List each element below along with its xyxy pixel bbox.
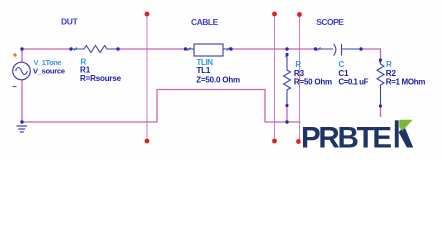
node dot R3 rail [285, 120, 288, 123]
logo K vertical bar [395, 120, 399, 147]
wire: R2 bottom to rail [380, 106, 382, 122]
wire: source bottom vertical [21, 80, 23, 123]
node dot source top [20, 47, 23, 50]
pin dot TLIN left [184, 47, 187, 50]
pin dot R1 right [116, 47, 119, 50]
node dot source bottom [20, 120, 23, 123]
marker line 3 (SCOPE boundary) [299, 14, 301, 141]
svg-text:V_source: V_source [33, 66, 65, 75]
logo white backing [301, 117, 418, 153]
pin tick C1 [318, 48, 321, 51]
pin dot C1 left [314, 47, 317, 50]
svg-text:C=0.1 uF: C=0.1 uF [338, 77, 368, 86]
resistor R1 (horizontal) [71, 46, 118, 53]
TLIN lead right [223, 48, 231, 50]
svg-text:R=Rsourse: R=Rsourse [80, 74, 122, 83]
capacitor C1 plates [316, 44, 362, 56]
red marker dot bottom 3 [296, 139, 301, 144]
pin dot R3 upper [285, 53, 288, 56]
pin tick R2 [379, 60, 382, 63]
pin dot C1 right [359, 47, 362, 50]
svg-text:CABLE: CABLE [191, 17, 219, 27]
pin tick TLIN [188, 48, 191, 51]
pin dot R3 lower [285, 104, 288, 107]
pin tick R3 [286, 55, 289, 58]
voltage source V_source circle [13, 62, 31, 80]
pin dot TLIN right [229, 47, 232, 50]
marker line 1 (DUT/CABLE boundary) [146, 14, 148, 141]
wire: TLIN to C1 (through node at R3) [231, 48, 316, 50]
red marker dot bottom 2 [272, 139, 277, 144]
svg-text:Z=50.0 Ohm: Z=50.0 Ohm [196, 75, 240, 84]
pin tick TLIN right [227, 48, 230, 51]
marker line 2 (CABLE/SCOPE boundary) [274, 14, 276, 141]
svg-text:TL1: TL1 [197, 66, 211, 75]
red marker dot top 1 [145, 12, 150, 17]
minus sign [13, 86, 17, 88]
pin tick R1 [74, 48, 77, 51]
voltage source sine wave [16, 68, 28, 75]
wire: bottom return rail with jog [22, 90, 381, 123]
wire: R1 to TLIN [118, 48, 186, 50]
pin dot R2 bottom [379, 104, 382, 107]
pin dot R2 top [379, 58, 382, 61]
ground symbol [17, 126, 28, 132]
resistor R3 (vertical) [284, 55, 291, 106]
svg-text:R=50 Ohm: R=50 Ohm [294, 77, 332, 86]
TLIN lead left [186, 48, 195, 50]
logo K green flag [399, 120, 413, 131]
svg-text:SCOPE: SCOPE [316, 17, 344, 27]
red marker dot top 2 [272, 12, 277, 17]
transmission line TL1 box [194, 44, 223, 56]
node dot R3 top [285, 47, 288, 50]
red marker dot top 3 [297, 12, 302, 17]
svg-text:DUT: DUT [61, 16, 79, 26]
logo K lower leg [399, 126, 414, 148]
wire: source top vertical [21, 49, 23, 63]
pin dot R1 left [69, 47, 72, 50]
plus sign [13, 53, 17, 57]
wire: source top to R1 [22, 48, 71, 50]
resistor R2 (vertical) [377, 60, 384, 106]
wire: R3 bottom to rail [286, 106, 288, 123]
red marker dot bottom 1 [145, 139, 150, 144]
svg-text:R=1 MOhm: R=1 MOhm [386, 77, 426, 86]
svg-text:PRBTE: PRBTE [301, 121, 391, 154]
wire: C1 to R2 corner [361, 49, 381, 59]
